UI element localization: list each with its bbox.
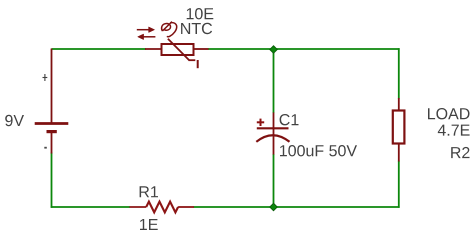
thermistor theta glyph [162,22,177,37]
thermistor name label NTC [181,23,212,34]
thermistor radiation arrow right [137,27,155,33]
thermistor value label 10E [187,8,214,19]
resistor R2 bottom lead [398,144,400,162]
capacitor curved bottom plate [256,135,289,142]
resistor R2 LOAD (box) [393,98,405,162]
wire bottom-right horizontal (R1 to node B to R2) [194,206,400,208]
battery long plate (+) [35,122,69,125]
capacitor bottom lead [273,128,275,155]
thermistor right lead [193,48,209,50]
thermistor body rectangle [162,44,194,55]
battery value label 9V [5,115,24,126]
battery minus sign [44,147,47,149]
resistor R1 value label 1E [140,219,158,230]
capacitor plus sign [257,119,264,126]
thermistor diagonal stroke [168,39,189,60]
resistor R2 top lead [398,98,400,111]
node B junction dot (bottom, R1/C1/R2 net) [270,203,278,211]
resistor R2 name label LOAD [428,108,470,119]
node A junction dot (top, thermistor/C1/R2 net) [270,46,278,54]
wire capacitor branch lower (C1 down to node B) [273,154,275,207]
resistor R1 name label [140,186,158,197]
resistor R1 right lead [178,206,194,208]
wire bottom-left horizontal (to R1) [51,206,130,208]
thermistor radiation arrow left [138,34,156,40]
capacitor name label C1 [280,114,299,125]
thermistor RT1 (NTC) [145,39,209,60]
wire top-left horizontal (battery+ to thermistor) [52,48,147,50]
resistor R1 left lead [130,206,147,208]
resistor R2 value label 4.7E [438,125,470,136]
resistor R2 body rectangle [393,111,405,144]
thermistor left lead [145,48,162,50]
battery negative lead [51,132,53,154]
battery plus sign [43,74,48,81]
wire capacitor branch upper (node A down to C1) [273,49,275,113]
wire top-right horizontal (thermistor to node A and R2) [208,48,400,50]
thermistor diagonal foot [189,59,196,61]
capacitor top plate [257,127,289,129]
capacitor value label 100uF 50V [280,145,357,156]
wire right vertical upper (top net down to R2) [398,48,400,98]
capacitor top lead [273,113,275,129]
wire left vertical lower (battery- down to bottom net) [51,153,53,208]
resistor R2 reference label R2 [451,147,469,158]
resistor R1 1E (zigzag) [130,202,195,213]
resistor R1 zigzag body [146,202,178,213]
thermistor I mark [197,60,199,68]
battery BT1 9V [35,49,69,154]
capacitor C1 [256,113,289,155]
wire right vertical lower (R2 down to bottom net) [398,161,400,208]
battery positive lead [51,49,53,125]
battery short plate (-) [47,130,57,133]
